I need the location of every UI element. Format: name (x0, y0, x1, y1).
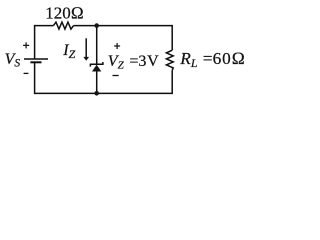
wire left branch lower (34, 62, 36, 94)
current arrow IZ head (83, 57, 89, 61)
current arrow IZ stem (85, 38, 87, 57)
wire zener branch lower anode to bottom rail (96, 71, 98, 93)
wire top rail node A to right corner (97, 25, 173, 27)
svg-text:3V: 3V (138, 53, 159, 70)
zener diode anode triangle (92, 65, 101, 72)
label plus VS polarity (23, 42, 29, 48)
svg-text:IZ: IZ (62, 42, 75, 61)
resistor RL zigzag (166, 50, 173, 70)
label minus VZ polarity (113, 75, 119, 77)
wire top rail resistor to node A (74, 25, 97, 27)
label minus VS polarity (24, 72, 29, 74)
node A junction dot (94, 23, 99, 28)
wire right branch lower (171, 70, 173, 94)
wire zener branch upper node A to cathode (96, 26, 98, 65)
wire top rail left segment (35, 25, 54, 27)
svg-text:60Ω: 60Ω (213, 49, 246, 68)
resistor 120ohm zigzag (54, 22, 74, 29)
svg-text:=: = (129, 53, 138, 70)
battery VS long positive plate (24, 58, 48, 60)
zener diode cathode bar with Z tails (90, 62, 103, 67)
battery VS short negative plate (30, 61, 41, 63)
svg-text:VZ: VZ (108, 53, 125, 72)
svg-text:RL: RL (179, 49, 198, 70)
wire left branch upper (34, 25, 36, 59)
label plus VZ polarity (114, 43, 120, 49)
wire right branch upper (171, 25, 173, 50)
svg-text:120Ω: 120Ω (45, 3, 84, 22)
svg-text:VS: VS (5, 51, 21, 70)
node B junction dot (94, 91, 99, 96)
wire bottom rail (35, 92, 173, 94)
svg-text:=: = (203, 49, 213, 68)
